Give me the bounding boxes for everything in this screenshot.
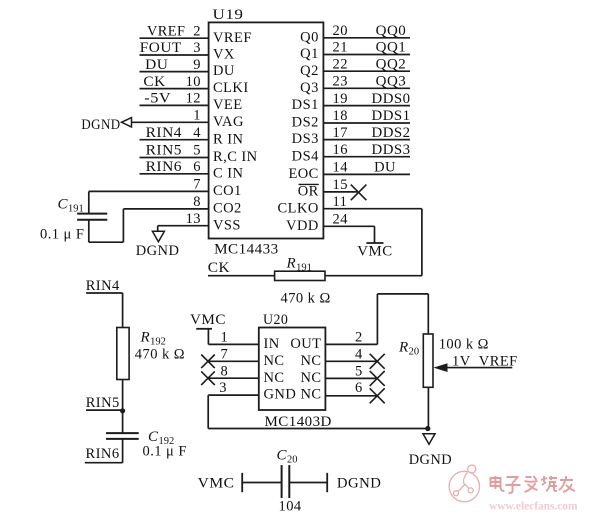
svg-text:0.1 μ F: 0.1 μ F bbox=[143, 443, 187, 459]
wire U19 pin 6 bbox=[140, 173, 209, 175]
junction dot DGND node bbox=[425, 426, 430, 431]
ground DGND triangle (pin1) bbox=[122, 118, 132, 127]
svg-text:C IN: C IN bbox=[213, 165, 243, 181]
svg-text:RIN6: RIN6 bbox=[86, 446, 120, 462]
capacitor C20 left plate bbox=[281, 465, 283, 498]
svg-text:9: 9 bbox=[193, 57, 201, 73]
capacitor C192 top plate bbox=[106, 432, 139, 434]
svg-text:IN: IN bbox=[264, 336, 280, 352]
svg-text:VMC: VMC bbox=[357, 243, 392, 259]
svg-text:0.1 μ F: 0.1 μ F bbox=[40, 227, 84, 243]
svg-text:Q3: Q3 bbox=[300, 80, 319, 96]
svg-text:8: 8 bbox=[193, 194, 201, 210]
svg-text:OR: OR bbox=[298, 184, 319, 200]
svg-text:22: 22 bbox=[333, 56, 348, 72]
svg-text:RIN5: RIN5 bbox=[86, 395, 120, 411]
wire U19 pin 3 bbox=[140, 54, 209, 56]
svg-text:VMC: VMC bbox=[198, 475, 235, 491]
svg-text:DDS3: DDS3 bbox=[372, 142, 411, 158]
wire U19 pin 17 bbox=[323, 139, 410, 141]
terminal bar VMC (C20) bbox=[241, 473, 243, 492]
wire OUT up bbox=[376, 294, 378, 345]
wire C191 down bbox=[88, 220, 90, 243]
wire C20 to DGND bbox=[289, 482, 327, 484]
svg-text:1: 1 bbox=[221, 329, 229, 345]
svg-text:NC: NC bbox=[264, 370, 285, 386]
wire U20 pin 5 bbox=[325, 377, 377, 379]
capacitor C191 bottom plate bbox=[77, 219, 107, 221]
svg-text:NC: NC bbox=[264, 353, 285, 369]
wire U20 pin 6 bbox=[325, 395, 377, 397]
wire U19 pin 23 bbox=[323, 87, 410, 89]
svg-text:DGND: DGND bbox=[337, 475, 381, 491]
svg-text:DDS2: DDS2 bbox=[372, 125, 411, 141]
wire U19 pin 8 bbox=[123, 208, 208, 210]
no-connect X pin 5 bbox=[370, 371, 385, 386]
svg-text:18: 18 bbox=[333, 108, 348, 124]
svg-text:GND: GND bbox=[264, 387, 297, 403]
svg-text:6: 6 bbox=[355, 380, 363, 396]
wire up to pin 8 bbox=[122, 209, 124, 242]
no-connect X pin 4 bbox=[370, 354, 385, 369]
wire U19 pin 1 bbox=[132, 121, 209, 123]
svg-text:13: 13 bbox=[186, 211, 201, 227]
svg-text:NC: NC bbox=[300, 370, 321, 386]
svg-text:DS3: DS3 bbox=[292, 131, 319, 147]
svg-text:DU: DU bbox=[374, 160, 396, 176]
wire pin24 down to VMC bbox=[374, 226, 376, 243]
no-connect X pin 7 bbox=[201, 355, 215, 369]
wire U19 pin 2 bbox=[140, 37, 209, 39]
svg-text:FOUT: FOUT bbox=[140, 40, 182, 56]
svg-text:Q0: Q0 bbox=[300, 29, 319, 45]
svg-text:DGND: DGND bbox=[136, 243, 180, 259]
svg-text:DGND: DGND bbox=[81, 117, 120, 133]
svg-text:3: 3 bbox=[219, 380, 227, 396]
svg-text:21: 21 bbox=[333, 40, 348, 56]
svg-text:8: 8 bbox=[221, 363, 229, 379]
svg-text:RIN5: RIN5 bbox=[146, 143, 182, 159]
svg-text:12: 12 bbox=[186, 91, 201, 107]
svg-text:11: 11 bbox=[333, 194, 348, 210]
wire U19 pin 11 to node bbox=[323, 208, 422, 210]
svg-text:-5V: -5V bbox=[144, 91, 171, 107]
wire C192 down bbox=[122, 439, 124, 463]
svg-text:RIN4: RIN4 bbox=[146, 125, 183, 141]
svg-text:470 k Ω: 470 k Ω bbox=[281, 291, 331, 307]
svg-text:OUT: OUT bbox=[290, 336, 321, 352]
wire C191 bottom across bbox=[89, 241, 124, 243]
svg-text:www.elecfans.com: www.elecfans.com bbox=[489, 501, 578, 513]
junction dot RIN5 bbox=[120, 408, 125, 413]
wiper arrow line bbox=[446, 367, 512, 369]
wire R20 down bbox=[427, 387, 429, 428]
svg-text:1: 1 bbox=[193, 108, 201, 124]
svg-text:DGND: DGND bbox=[409, 452, 453, 468]
svg-text:2: 2 bbox=[355, 329, 363, 345]
svg-text:RIN6: RIN6 bbox=[146, 159, 182, 175]
IC U20 MC1403D body bbox=[259, 328, 326, 411]
resistor R191 body bbox=[275, 271, 325, 280]
svg-text:15: 15 bbox=[333, 177, 348, 193]
wire U20 pin 3 bbox=[208, 394, 259, 396]
wire GND across bottom bbox=[208, 428, 428, 430]
ground DGND triangle (R20) bbox=[423, 434, 435, 445]
IC U19 MC14433 body bbox=[209, 22, 324, 238]
svg-text:QQ1: QQ1 bbox=[376, 40, 407, 56]
svg-text:CLKI: CLKI bbox=[213, 80, 249, 96]
wire RIN4 underline bbox=[86, 292, 123, 294]
wire U19 pin 21 bbox=[323, 54, 410, 56]
svg-text:7: 7 bbox=[193, 177, 201, 193]
svg-text:RIN4: RIN4 bbox=[86, 278, 120, 294]
wire U20 pin 1 bbox=[208, 343, 258, 345]
capacitor C191 top plate bbox=[77, 213, 107, 215]
svg-text:CO1: CO1 bbox=[213, 183, 242, 199]
svg-text:R IN: R IN bbox=[213, 131, 243, 147]
svg-text:QQ2: QQ2 bbox=[376, 56, 407, 72]
wire GND down bbox=[207, 395, 209, 428]
wire RIN4 down to R192 bbox=[122, 293, 124, 328]
watermark chinese text bbox=[491, 476, 576, 493]
svg-text:R,C IN: R,C IN bbox=[213, 149, 258, 165]
wire U20 pin 4 bbox=[325, 360, 377, 362]
wire U19 pin 9 bbox=[140, 71, 209, 73]
svg-text:5: 5 bbox=[355, 363, 363, 379]
svg-text:10: 10 bbox=[186, 74, 201, 90]
power VMC bar (U19) bbox=[366, 242, 383, 244]
watermark elecfans logo bbox=[449, 465, 479, 502]
wire U20 pin 2 OUT bbox=[325, 343, 377, 345]
wire U19 pin 14 bbox=[323, 173, 410, 175]
svg-text:VSS: VSS bbox=[213, 217, 241, 233]
svg-text:U20: U20 bbox=[263, 312, 288, 328]
svg-text:VREF: VREF bbox=[213, 30, 252, 46]
svg-text:DDS1: DDS1 bbox=[372, 108, 411, 124]
wire VMC to C20 bbox=[242, 482, 281, 484]
svg-text:VREF: VREF bbox=[147, 23, 185, 39]
svg-text:CK: CK bbox=[143, 74, 165, 90]
wire U19 pin 12 bbox=[140, 104, 209, 106]
svg-text:NC: NC bbox=[300, 353, 321, 369]
wire U19 pin 24 bbox=[323, 225, 374, 227]
svg-text:20: 20 bbox=[333, 23, 348, 39]
wire U19 pin 7 bbox=[89, 190, 209, 192]
wire VMC down to pin1 bbox=[207, 329, 209, 345]
resistor R192 body bbox=[117, 328, 129, 380]
wire U19 pin 4 bbox=[140, 139, 209, 141]
svg-text:DS2: DS2 bbox=[292, 115, 319, 131]
svg-text:DDS0: DDS0 bbox=[372, 91, 411, 107]
capacitor C192 bottom plate bbox=[106, 438, 139, 440]
no-connect X pin 15 bbox=[351, 185, 367, 201]
svg-text:4: 4 bbox=[355, 346, 363, 362]
svg-text:NC: NC bbox=[300, 387, 321, 403]
resistor R20 body bbox=[423, 334, 433, 387]
svg-text:4: 4 bbox=[193, 125, 201, 141]
wire U19 pin 18 bbox=[323, 122, 410, 124]
wire U20 pin 8 bbox=[208, 377, 259, 379]
svg-text:Q1: Q1 bbox=[300, 46, 319, 62]
svg-text:19: 19 bbox=[333, 91, 348, 107]
svg-text:VMC: VMC bbox=[190, 312, 226, 328]
svg-text:16: 16 bbox=[333, 142, 348, 158]
svg-text:23: 23 bbox=[333, 74, 348, 90]
svg-text:VX: VX bbox=[213, 47, 235, 63]
svg-text:2: 2 bbox=[193, 23, 201, 39]
svg-text:104: 104 bbox=[279, 499, 302, 515]
wire down to R20 top bbox=[427, 294, 429, 334]
svg-text:6: 6 bbox=[193, 159, 201, 175]
wire U19 pin 15 stub bbox=[323, 191, 357, 193]
svg-text:CO2: CO2 bbox=[213, 201, 242, 217]
power VMC bar (U20) bbox=[196, 328, 212, 330]
svg-text:DS4: DS4 bbox=[292, 148, 319, 164]
no-connect X pin 6 bbox=[370, 388, 385, 403]
svg-text:DU: DU bbox=[145, 57, 168, 73]
svg-text:VDD: VDD bbox=[286, 218, 319, 234]
svg-text:VEE: VEE bbox=[213, 97, 243, 113]
svg-text:EOC: EOC bbox=[288, 166, 318, 182]
wire U19 pin 22 bbox=[323, 70, 410, 72]
no-connect X pin 8 bbox=[201, 371, 215, 385]
svg-text:DS1: DS1 bbox=[292, 97, 319, 113]
svg-text:VAG: VAG bbox=[213, 114, 244, 130]
svg-text:470 k Ω: 470 k Ω bbox=[135, 346, 185, 362]
wire U19 pin 5 bbox=[140, 157, 209, 159]
wire R192 down bbox=[122, 380, 124, 434]
ground DGND triangle (VSS) bbox=[152, 231, 164, 242]
wire vertical CLKO down bbox=[421, 209, 423, 276]
wiper arrowhead bbox=[434, 363, 448, 372]
wire R191 to CLKO node bbox=[325, 275, 422, 277]
wire CK to R191 bbox=[208, 275, 275, 277]
wire U19 pin 13 bbox=[158, 225, 209, 227]
svg-text:100 k Ω: 100 k Ω bbox=[439, 336, 489, 352]
svg-text:Q2: Q2 bbox=[300, 63, 319, 79]
svg-text:5: 5 bbox=[193, 143, 201, 159]
wire U19 pin 16 bbox=[323, 156, 410, 158]
wire U19 pin 19 bbox=[323, 105, 410, 107]
svg-text:U19: U19 bbox=[213, 7, 244, 23]
svg-text:MC14433: MC14433 bbox=[214, 242, 279, 258]
wire pin7 down to C191 bbox=[88, 191, 90, 213]
terminal bar DGND (C20) bbox=[326, 473, 328, 492]
wire U20 pin 7 bbox=[208, 360, 259, 362]
svg-text:CLKO: CLKO bbox=[278, 200, 319, 216]
svg-text:24: 24 bbox=[333, 212, 349, 228]
wire RIN6 underline bbox=[85, 462, 123, 464]
wire U19 pin 20 bbox=[323, 37, 410, 39]
svg-text:7: 7 bbox=[221, 346, 229, 362]
svg-text:MC1403D: MC1403D bbox=[265, 414, 332, 430]
svg-text:3: 3 bbox=[193, 40, 201, 56]
svg-text:QQ3: QQ3 bbox=[376, 74, 407, 90]
wire RIN5 underline bbox=[86, 409, 123, 411]
svg-text:QQ0: QQ0 bbox=[376, 23, 407, 39]
wire top across to R20 bbox=[377, 293, 428, 295]
svg-text:DU: DU bbox=[213, 63, 235, 79]
svg-text:17: 17 bbox=[333, 125, 348, 141]
svg-text:14: 14 bbox=[333, 160, 349, 176]
wire U19 pin 10 bbox=[140, 88, 209, 90]
svg-text:CK: CK bbox=[208, 260, 230, 276]
capacitor C20 right plate bbox=[288, 465, 290, 498]
wire pin13 down bbox=[157, 226, 159, 232]
